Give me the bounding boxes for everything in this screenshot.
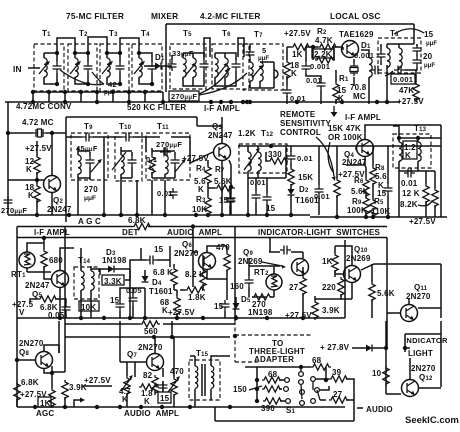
68b wire to contact (279, 379, 284, 381)
T2 tuned circuit coil (75, 58, 78, 77)
svg-text:μμF: μμF (426, 41, 437, 47)
svg-text:+27.5V: +27.5V (84, 376, 111, 385)
svg-text:TAE1629: TAE1629 (339, 30, 374, 39)
svg-text:15: 15 (160, 394, 170, 403)
dashed adapter lines (235, 321, 312, 362)
39 dot (324, 378, 328, 382)
1.2 K boxed label T13 (403, 141, 417, 159)
T11 cap2 (171, 156, 180, 167)
dashed box T3 (100, 44, 129, 91)
svg-text:270μμF: 270μμF (171, 92, 197, 101)
svg-text:70.8: 70.8 (350, 83, 367, 92)
pointer curve 2 (328, 142, 333, 172)
27 wires (320, 399, 354, 401)
main bus y102 (5, 101, 400, 103)
control pointer curve (316, 137, 334, 176)
switch contacts left (285, 378, 290, 383)
svg-text:220: 220 (322, 283, 336, 292)
svg-text:15K 47K: 15K 47K (328, 124, 361, 133)
T5 wires (168, 53, 204, 86)
dashed box T7 (243, 44, 283, 90)
left rail (256, 367, 258, 402)
RT1 thermistor (19, 252, 35, 268)
T14 wires (81, 248, 91, 318)
T3 wires (107, 38, 139, 84)
0.01d wires (318, 146, 320, 215)
560 wire (65, 323, 235, 325)
0.01 cap mid (317, 79, 326, 90)
svg-text:5.6K: 5.6K (377, 289, 395, 298)
Q7 transistor (147, 354, 164, 371)
T8 coil secondary (399, 48, 402, 67)
svg-text:SeekIC.com: SeekIC.com (405, 415, 459, 426)
12K resistor (34, 155, 40, 175)
T2 cap (84, 62, 93, 73)
svg-text:47K: 47K (399, 86, 414, 95)
T9 wires (66, 137, 104, 215)
svg-text:6.8K: 6.8K (128, 216, 146, 225)
R4 resistor 5.6K (205, 165, 211, 185)
svg-text:AUDIO AMPL: AUDIO AMPL (167, 228, 222, 237)
svg-text:AUDIO AMPL: AUDIO AMPL (124, 409, 179, 418)
cap below T13 (404, 169, 415, 178)
3.9K to bus (64, 397, 66, 407)
svg-text:680: 680 (49, 256, 63, 265)
470 resistor q6 (224, 252, 230, 272)
T11 cap top (160, 148, 171, 157)
svg-text:5.6K: 5.6K (214, 177, 232, 186)
rail y318 (17, 317, 345, 319)
corner arrow (74, 400, 80, 407)
svg-text:V: V (19, 308, 25, 317)
svg-text:15: 15 (424, 30, 434, 39)
svg-text:K: K (198, 185, 204, 194)
vertical feeds into audio section (59, 227, 235, 373)
T2 wires (75, 37, 107, 84)
svg-text:REMOTE: REMOTE (280, 110, 316, 119)
svg-text:MC: MC (353, 92, 366, 101)
Q4 wires (346, 125, 441, 217)
svg-text:2N270: 2N270 (411, 364, 436, 373)
10 resistor q12 (383, 366, 389, 386)
47K resistor (413, 82, 419, 102)
svg-text:6.8 K: 6.8 K (153, 268, 173, 277)
T8 pointer arc (394, 29, 424, 34)
svg-text:AUDIO: AUDIO (366, 405, 393, 414)
15 cap q6 (221, 300, 230, 311)
2.2K resistor (315, 57, 335, 63)
T5 input cap (168, 60, 177, 71)
svg-text:39: 39 (332, 368, 342, 377)
svg-text:+ 27.8V: + 27.8V (320, 343, 350, 352)
1K boxed label (38, 397, 51, 407)
dashed box T4 (132, 44, 162, 91)
svg-text:+27.5V: +27.5V (25, 144, 52, 153)
svg-text:2N269: 2N269 (346, 254, 371, 263)
0.001 label boxed (391, 74, 415, 84)
15 cap row2 (226, 195, 235, 206)
T5 coils (183, 58, 186, 77)
T3 tuned circuit coil (107, 58, 110, 77)
junction dot rail (311, 45, 315, 49)
15 cap Q4 (384, 184, 393, 195)
0.01 bottom cap (283, 86, 292, 97)
verticals y92 to bus102 (33, 92, 163, 102)
banner top line (17, 226, 387, 228)
svg-text:15: 15 (110, 296, 120, 305)
svg-text:270: 270 (84, 185, 98, 194)
svg-text:LIGHT: LIGHT (408, 349, 433, 358)
svg-text:470: 470 (170, 367, 184, 376)
0.05 cap (62, 303, 71, 314)
T1 top wire (44, 38, 75, 84)
svg-text:0.01: 0.01 (290, 94, 306, 103)
T14 coil2 (91, 271, 94, 290)
T10 cap (128, 156, 137, 167)
dashed box 75-MC filter T1 (34, 44, 64, 91)
8.2K pointer (418, 201, 432, 206)
svg-text:10K: 10K (81, 303, 96, 312)
T12 bottom wires (248, 178, 267, 215)
27 resistor sw (329, 397, 349, 403)
svg-text:μμF: μμF (424, 63, 435, 69)
bus wire y146 (238, 145, 441, 147)
svg-text:+27.5V: +27.5V (397, 97, 424, 106)
svg-text:K: K (26, 165, 32, 174)
D4 diode (142, 276, 149, 282)
Q8 wires (17, 345, 65, 388)
crystal 70.8MC (350, 63, 358, 76)
15 cap q7 (159, 381, 168, 392)
68 resistor b (262, 377, 282, 383)
T1 tuned circuit coil (44, 58, 47, 77)
svg-text:520 KC FILTER: 520 KC FILTER (127, 103, 186, 112)
T8 top wires (381, 40, 417, 102)
Q5 transistor (52, 271, 69, 288)
Q9 transistor (292, 259, 309, 276)
svg-text:0.01: 0.01 (314, 192, 330, 201)
svg-text:MIXER: MIXER (151, 11, 178, 21)
svg-text:5.6: 5.6 (375, 172, 387, 181)
T11 wires (146, 137, 190, 215)
svg-text:K: K (28, 191, 34, 200)
svg-text:0.01: 0.01 (306, 76, 322, 85)
520KC filter box top (66, 117, 197, 222)
ground arrow top (331, 106, 338, 117)
svg-text:82: 82 (143, 371, 153, 380)
Q2 wires (8, 141, 52, 215)
T13 coil 1 (399, 142, 402, 161)
dot Q8 base (15, 358, 19, 362)
dashed box T2 (68, 44, 97, 91)
svg-text:K: K (291, 69, 297, 78)
T13 right wires (399, 171, 435, 217)
svg-text:0.01: 0.01 (401, 179, 418, 188)
0.01 cap row2 (169, 188, 178, 199)
dashed box T9 (71, 133, 108, 180)
banner bottom line (17, 237, 387, 239)
svg-text:8.2K: 8.2K (400, 200, 418, 209)
dashed box T8 (378, 38, 421, 73)
15 boxed label q7 (158, 392, 171, 403)
0.01 cap c (287, 152, 296, 163)
0.01 cap a (252, 191, 261, 202)
interstage bridge T6-T7 (238, 38, 244, 57)
560 resistor (140, 321, 160, 327)
svg-text:390: 390 (261, 404, 275, 413)
crystal 4.72MC (33, 129, 46, 137)
RT1/680 wires (27, 238, 51, 279)
svg-text:2N247: 2N247 (47, 205, 72, 214)
6.8K inline resistor (132, 223, 152, 229)
svg-text:3.9K: 3.9K (322, 306, 340, 315)
svg-text:3.3K: 3.3K (104, 277, 122, 286)
68 K resistor (174, 296, 180, 316)
Q8 transistor (36, 352, 53, 369)
svg-text:+27.5V: +27.5V (168, 308, 195, 317)
8.2K resistor (200, 268, 206, 288)
T8 input cap (377, 50, 386, 61)
section divider vertical (344, 240, 346, 318)
svg-text:470: 470 (216, 243, 230, 252)
T15 primary coil (195, 366, 198, 388)
junction dot crystal (50, 131, 54, 135)
svg-text:OR 100K: OR 100K (328, 133, 363, 142)
right contact wires (316, 379, 329, 390)
svg-text:20: 20 (423, 52, 433, 61)
dashed box T14 (74, 267, 99, 299)
6.8K resistor q8 (inline left edge) (14, 382, 20, 402)
R6 resistor (363, 178, 369, 198)
T13 coil 2 (418, 142, 421, 161)
R9 resistor (363, 196, 369, 216)
R7 resistor horizontal (215, 185, 235, 191)
15 cap b (263, 193, 272, 204)
6.8K resistor det (171, 267, 177, 287)
0.001 cap (302, 62, 311, 73)
T9 cap (86, 156, 95, 167)
4.7K pot arrow (121, 378, 131, 391)
dashed box T10 (115, 133, 142, 181)
svg-text:1K: 1K (322, 257, 333, 266)
svg-text:8.2 K: 8.2 K (185, 270, 205, 279)
bus2 y217 right (310, 216, 447, 218)
39 resistor (329, 376, 349, 382)
D3 wires (91, 269, 130, 280)
R3 resistor 10K (205, 196, 211, 216)
Q3 emitter wire (229, 160, 231, 215)
svg-text:T1601: T1601 (149, 287, 173, 296)
svg-text:2N270: 2N270 (138, 343, 163, 352)
svg-text:IN: IN (13, 64, 22, 74)
dashed box T15 (189, 360, 220, 400)
T4 cap (148, 62, 157, 73)
T14 coil1 (81, 271, 84, 290)
svg-text:5: 5 (262, 46, 266, 55)
T11 var arrow (175, 159, 186, 172)
RT2 thermistor (266, 274, 282, 290)
svg-text:160: 160 (230, 282, 244, 291)
T9 coil (78, 155, 81, 174)
T6 cap (232, 60, 241, 71)
svg-text:μμF: μμF (84, 195, 96, 202)
svg-text:2N270: 2N270 (174, 249, 199, 258)
Q3 emitter cap (227, 194, 236, 205)
INDICATOR box (405, 321, 441, 387)
svg-text:6.8K: 6.8K (21, 378, 39, 387)
16 cap T9 top (82, 133, 93, 142)
bus y92 dots (31, 90, 35, 94)
svg-text:2N269: 2N269 (238, 257, 263, 266)
pointer curves from 270uuF (199, 68, 247, 95)
Q3 emitter dot (229, 185, 233, 189)
svg-text:0.001: 0.001 (393, 75, 413, 84)
sens pot resistor (334, 178, 340, 198)
Q12 transistor (402, 380, 419, 397)
bus y215 AGC (8, 214, 310, 216)
svg-text:2N270: 2N270 (19, 339, 44, 348)
20uuF cap inside (413, 56, 422, 67)
rail dots (58, 316, 62, 320)
svg-text:+27.5V: +27.5V (409, 217, 436, 226)
svg-text:15K: 15K (298, 173, 313, 182)
svg-text:1.2K: 1.2K (238, 129, 256, 138)
1K resistor q8 (49, 388, 55, 408)
svg-text:0.001: 0.001 (310, 62, 330, 71)
D3 diode (108, 266, 114, 273)
Q12 wires (386, 348, 441, 394)
crystal wires (8, 102, 66, 215)
3.9K resistor (312, 300, 318, 320)
2.2K boxed label (312, 49, 334, 58)
svg-text:330: 330 (268, 150, 282, 159)
dot T12 (269, 144, 273, 148)
supply dot (384, 346, 388, 350)
bus y337 (65, 336, 230, 338)
svg-text:0.01: 0.01 (250, 178, 266, 187)
T12 coil 2 (258, 152, 261, 171)
dot q2 base (35, 178, 39, 182)
main bottom bus (62, 406, 345, 408)
Q10 wires (315, 246, 441, 318)
svg-text:LOCAL OSC: LOCAL OSC (330, 11, 381, 21)
svg-text:4.72 MC: 4.72 MC (22, 118, 54, 127)
dashed box T6 (212, 44, 249, 89)
6.8K resistor h (38, 296, 58, 302)
R8 resistor (370, 166, 376, 186)
T11 coil (165, 155, 168, 174)
T12 coil 1 (248, 152, 251, 171)
270 resistor h (252, 294, 272, 300)
pointer curves (60, 70, 104, 85)
680 resistor (41, 249, 47, 269)
1K to bus (51, 405, 53, 407)
Q11 transistor (401, 305, 418, 322)
Q9 cap top (280, 246, 291, 255)
svg-text:75-MC FILTER: 75-MC FILTER (66, 11, 124, 21)
15uuF cap inside (413, 44, 422, 55)
svg-text:1N198: 1N198 (102, 256, 127, 265)
cap stack wire (410, 55, 417, 70)
vertical wires LO bias (287, 47, 343, 104)
10K boxed label (79, 301, 99, 311)
Q6 transistor (199, 253, 216, 270)
+27.5V rail wire (287, 46, 343, 48)
270uuF cap left (4, 196, 13, 207)
5.6K resistor sw (369, 282, 375, 302)
Q3 transistor (214, 144, 231, 161)
svg-text:560: 560 (144, 327, 158, 336)
mixer diode D1 (155, 63, 161, 70)
switch wiper (301, 367, 320, 400)
svg-text:+27.5V: +27.5V (284, 29, 311, 38)
dots T13 (397, 136, 401, 140)
270uuF boxed label (169, 91, 199, 101)
dot 680 top (42, 236, 46, 240)
15K resistor (288, 167, 294, 187)
big box right edge (386, 238, 388, 348)
left edge to bus (16, 399, 18, 407)
svg-text:A G C: A G C (78, 217, 101, 226)
0.05 cap det (129, 294, 138, 305)
Q10 transistor (344, 266, 361, 283)
transistor Q1 local osc (342, 41, 359, 58)
svg-text:INDICATOR: INDICATOR (404, 336, 448, 345)
svg-text:15: 15 (154, 245, 164, 254)
svg-text:27: 27 (333, 390, 343, 399)
banner dot (191, 224, 195, 228)
svg-text:I-F AMPL: I-F AMPL (345, 113, 381, 122)
1.8K resistor h (185, 287, 205, 293)
svg-text:K: K (144, 397, 150, 406)
svg-text:μμF: μμF (258, 56, 269, 62)
T11 resistor 0.1K (149, 155, 155, 175)
svg-text:27: 27 (289, 283, 299, 292)
3.9K resistor q8 (62, 380, 68, 400)
supply diode (366, 345, 372, 352)
1K resistor sw (332, 253, 338, 273)
svg-text:270μμF: 270μμF (1, 206, 27, 215)
svg-text:K: K (405, 151, 411, 160)
pot wires (336, 146, 338, 215)
AUDIO output wire (357, 407, 363, 409)
bottom bus dots (63, 405, 67, 409)
T9 var arrow (91, 159, 102, 172)
svg-text:+27.5V: +27.5V (182, 154, 209, 163)
switch contacts center (299, 372, 304, 377)
220 resistor (338, 277, 344, 297)
svg-text:CONTROL: CONTROL (280, 128, 321, 137)
4.7K pot (124, 376, 130, 396)
indicator dot (403, 346, 407, 350)
T13 wires (393, 125, 441, 217)
82 resistor (152, 375, 158, 395)
Q2 transistor (44, 176, 61, 193)
interstage bridge T5-T6 (204, 38, 210, 57)
Q5 wires (30, 248, 74, 318)
dashed box T11 (146, 133, 190, 180)
T8 out wires (405, 70, 416, 100)
svg-text:1K: 1K (292, 50, 303, 59)
3.3K boxed label (102, 275, 124, 285)
svg-text:INDICATOR-LIGHT SWITCHES: INDICATOR-LIGHT SWITCHES (258, 228, 380, 237)
svg-text:4.7K: 4.7K (315, 36, 333, 45)
150 pointer (249, 386, 262, 390)
LO coil wires (354, 50, 369, 104)
12K resistor (423, 184, 429, 204)
svg-text:ADAPTER: ADAPTER (254, 355, 294, 364)
68 resistor a (311, 364, 331, 370)
